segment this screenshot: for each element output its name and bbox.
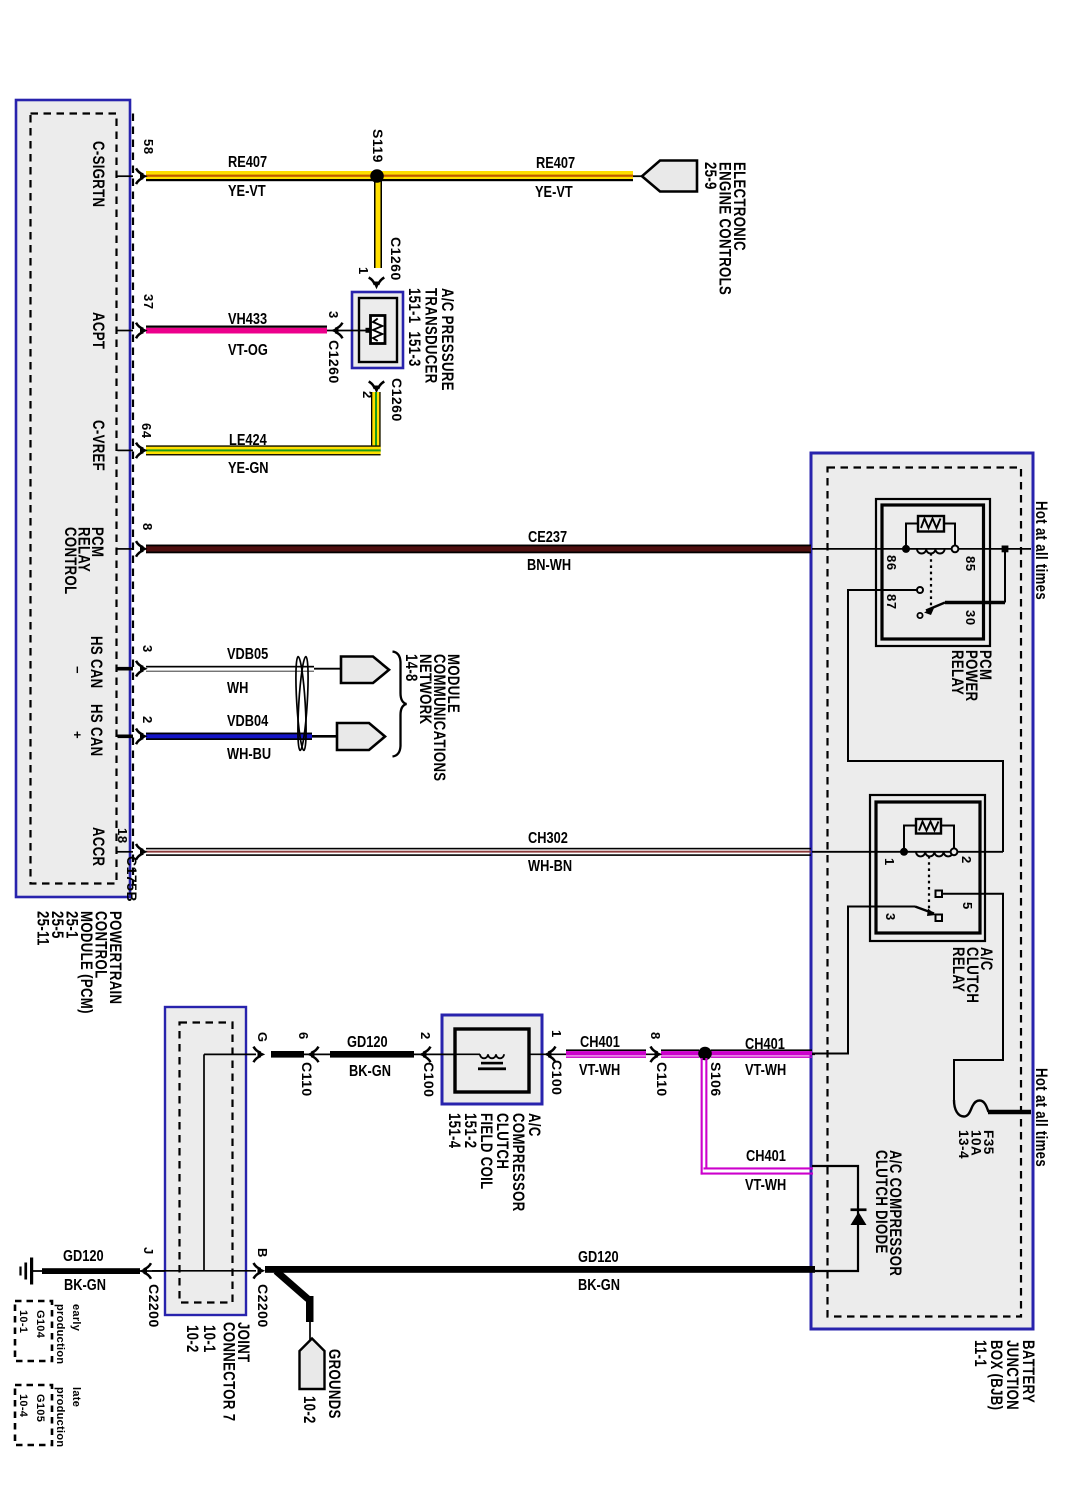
label: S106 bbox=[709, 1062, 723, 1097]
twisted pair loops bbox=[294, 656, 308, 750]
connector C110 pin 6 arrow bbox=[304, 1053, 334, 1055]
wire VDB05 WH (pin 3 HS CAN- to network) bbox=[146, 666, 341, 672]
PCM module box bbox=[16, 100, 130, 897]
off-page connector: module comms network (lower) bbox=[337, 723, 385, 750]
label: 86 bbox=[885, 555, 898, 571]
pin 64 stub bbox=[118, 449, 134, 451]
connector C110 pin 8 arrow bbox=[651, 1047, 663, 1063]
label: VT-OG bbox=[228, 343, 268, 359]
wire CH302 WH-BN (pin 18 to BJB) bbox=[146, 848, 811, 856]
label: RE407 bbox=[536, 156, 575, 172]
label: + bbox=[71, 731, 84, 739]
label: C1260 bbox=[327, 340, 341, 384]
label: 2 bbox=[361, 391, 374, 399]
wire from clutch relay 3 to CH401 bbox=[812, 907, 915, 1054]
PCM power relay coil bbox=[917, 549, 945, 554]
label: 30 bbox=[964, 610, 977, 626]
label: VT-WH bbox=[745, 1178, 786, 1194]
connector C1260 pin 1 arrow bbox=[369, 278, 385, 290]
off-page connector: electronic engine controls bbox=[642, 161, 697, 192]
A/C compressor clutch diode circuit bbox=[812, 1166, 858, 1271]
label: C1260 bbox=[390, 378, 404, 422]
wire GD120 BK-GN (ground to C2200-J) bbox=[42, 1268, 140, 1274]
A/C clutch relay box bbox=[870, 795, 985, 941]
wire GD120 BK-GN (C110-6 to C100-2) bbox=[330, 1051, 414, 1058]
label: CH401 bbox=[745, 1037, 785, 1053]
A/C pressure transducer box bbox=[352, 292, 403, 368]
PCM power relay switch bbox=[930, 553, 932, 608]
label: ACPT bbox=[91, 312, 106, 349]
label: GROUNDS bbox=[327, 1349, 342, 1419]
label: 3 bbox=[327, 311, 340, 319]
label: 5 bbox=[961, 902, 974, 910]
label: C1260 bbox=[389, 237, 403, 281]
label: 37 bbox=[142, 294, 155, 310]
joint connector 7 box bbox=[165, 1007, 246, 1315]
connector C100 pin 2 arrow bbox=[414, 1053, 455, 1055]
label: WH-BN bbox=[528, 859, 572, 875]
C1260 pin 3 lead into transducer bbox=[327, 330, 366, 332]
field coil winding bbox=[455, 1053, 546, 1055]
pin 18 stub / C175B bbox=[118, 851, 134, 853]
label: early production bbox=[52, 1304, 84, 1364]
label: 2 bbox=[141, 716, 154, 724]
label: 85 bbox=[964, 556, 977, 572]
label: VH433 bbox=[228, 312, 267, 328]
label: WH-BU bbox=[227, 747, 271, 763]
label: BK-GN bbox=[64, 1278, 106, 1294]
BJB inner dashed border bbox=[828, 468, 1022, 1317]
label: C100 bbox=[550, 1060, 564, 1095]
label: BK-GN bbox=[578, 1278, 620, 1294]
wire RE407 YE-VT (pin 58 to S119 to EEC) bbox=[146, 171, 643, 181]
label: C2200 bbox=[256, 1284, 270, 1328]
pin 37 stub bbox=[118, 330, 134, 332]
label: Hot at all times bbox=[1034, 1068, 1049, 1167]
wire GD120 BK-GN (G to C110-6) bbox=[271, 1051, 304, 1058]
label: VT-WH bbox=[745, 1063, 786, 1079]
label: 8 bbox=[649, 1032, 662, 1040]
joint connector internal bus bbox=[204, 1053, 256, 1055]
label: ACCR bbox=[91, 827, 106, 866]
joint connector pin B arrow bbox=[254, 1263, 266, 1279]
label: YE-GN bbox=[228, 461, 269, 477]
label: CH401 bbox=[580, 1035, 620, 1051]
transducer element symbol bbox=[366, 328, 371, 333]
label: 2 bbox=[419, 1032, 432, 1040]
wire CE237 BN-WH (pin 8 to BJB) bbox=[146, 545, 811, 554]
pin 8 stub bbox=[118, 548, 134, 550]
A/C clutch relay coil line bbox=[812, 851, 1003, 853]
label: J bbox=[142, 1247, 155, 1255]
label: CH401 bbox=[746, 1149, 786, 1165]
label: BN-WH bbox=[527, 558, 571, 574]
connector C100 pin 1 arrow bbox=[544, 1047, 556, 1063]
label: 58 bbox=[142, 139, 155, 155]
label: ELECTRONIC ENGINE CONTROLS 25-9 bbox=[703, 162, 747, 295]
label: 1 bbox=[883, 858, 896, 866]
label: 3 bbox=[884, 913, 897, 921]
wire from relay 87 to A/C clutch relay coil bbox=[848, 590, 1003, 852]
label: C-VREF bbox=[91, 420, 106, 471]
label: YE-VT bbox=[228, 184, 266, 200]
label: CE237 bbox=[528, 530, 567, 546]
splice S106 bbox=[698, 1047, 712, 1061]
connector C1260 pin 2 arrow bbox=[369, 382, 385, 394]
label: 87 bbox=[885, 594, 898, 610]
pin 2 stub (thick) bbox=[118, 734, 134, 738]
A/C compressor clutch field coil box bbox=[442, 1015, 542, 1104]
label: HS CAN bbox=[89, 636, 104, 689]
PCM power relay resistor bbox=[918, 516, 944, 532]
label: A/C CLUTCH RELAY bbox=[951, 947, 993, 1003]
battery junction box (BJB) bbox=[811, 453, 1033, 1329]
G104 legend dashed box bbox=[15, 1301, 52, 1361]
label: C110 bbox=[300, 1062, 314, 1097]
label: C100 bbox=[422, 1062, 436, 1097]
wire CH401 vertical and lower run from S106 to BJB diode bbox=[701, 1058, 813, 1175]
label: Hot at all times bbox=[1034, 501, 1049, 600]
off-page connector: grounds bbox=[300, 1339, 325, 1390]
PCM power relay coil feed line (hot at all times) bbox=[812, 548, 1031, 550]
label: GD120 bbox=[63, 1249, 104, 1265]
label: C-SIGRTN bbox=[91, 141, 106, 207]
wire RE407 vertical from S119 to C1260 pin 1 bbox=[374, 179, 382, 268]
G105 legend dashed box bbox=[15, 1385, 52, 1445]
ground G104/G105 symbol bbox=[33, 1270, 42, 1272]
wire LE424 YE-GN (pin 64 to C1260 pin 2) bbox=[146, 392, 381, 455]
label: B bbox=[256, 1248, 269, 1258]
wire GD120 BK-GN (B to BJB diode) bbox=[265, 1266, 815, 1273]
fuse F35 bbox=[954, 1100, 989, 1117]
label: 18 bbox=[116, 828, 129, 844]
label: WH bbox=[227, 681, 248, 697]
label: VDB04 bbox=[227, 714, 268, 730]
label: GD120 bbox=[578, 1250, 619, 1266]
label: C2200 bbox=[147, 1284, 161, 1328]
A/C clutch relay resistor bbox=[916, 819, 941, 834]
wire CH401 VT-WH (C100-1 to S106 to BJB) bbox=[546, 1053, 815, 1055]
label: POWERTRAIN CONTROL MODULE (PCM) 25-1 25- bbox=[35, 911, 122, 1014]
label: C175B bbox=[125, 856, 139, 902]
wire VDB04 WH-BU (pin 2 HS CAN+ to network) bbox=[146, 733, 337, 740]
splice S119 bbox=[370, 169, 384, 183]
PCM inner dashed border bbox=[31, 114, 117, 884]
PCM power relay box bbox=[876, 499, 990, 646]
label: 1 bbox=[357, 267, 370, 275]
pin 58 stub bbox=[118, 175, 134, 177]
label: GD120 bbox=[347, 1035, 388, 1051]
label: minus bbox=[71, 666, 84, 674]
label: YE-VT bbox=[535, 185, 573, 201]
label: 1 bbox=[550, 1030, 563, 1038]
label: CH302 bbox=[528, 831, 568, 847]
label: 2 bbox=[960, 856, 973, 864]
joint connector inner dashed border bbox=[180, 1023, 233, 1303]
label: 3 bbox=[141, 645, 154, 653]
label: 10-2 bbox=[302, 1396, 317, 1424]
joint connector pin G arrow bbox=[254, 1047, 266, 1063]
label: 64 bbox=[140, 423, 153, 439]
label: G105 10-4 bbox=[14, 1394, 48, 1422]
label: RE407 bbox=[228, 155, 267, 171]
label: PCM RELAY CONTROL bbox=[63, 527, 104, 595]
label: 10-1 10-2 bbox=[183, 1325, 217, 1353]
label: BK-GN bbox=[349, 1064, 391, 1080]
brace bbox=[393, 652, 407, 757]
A/C clutch relay coil bbox=[916, 852, 953, 857]
label: S119 bbox=[371, 129, 385, 163]
PCM C175B connector dashed line bbox=[132, 114, 134, 885]
pin 3 stub (thick) bbox=[118, 667, 134, 671]
label: C110 bbox=[655, 1062, 669, 1097]
label: BATTERY JUNCTION BOX (BJB) 11-1 bbox=[972, 1340, 1036, 1410]
label: A/C COMPRESSOR CLUTCH FIELD COIL 151-2 1 bbox=[446, 1113, 542, 1212]
label: F35 10A 13-4 bbox=[957, 1130, 995, 1159]
label: VDB05 bbox=[227, 647, 268, 663]
grounds branch bbox=[276, 1271, 308, 1299]
A/C clutch relay switch bbox=[928, 856, 930, 910]
junction to pin 30 bbox=[1002, 546, 1009, 553]
label: A/C PRESSURE TRANSDUCER 151-1 151-3 bbox=[406, 288, 456, 391]
wire VH433 VT-OG (pin 37 to C1260 pin 3) bbox=[146, 326, 327, 334]
label: A/C COMPRESSOR CLUTCH DIODE bbox=[874, 1150, 902, 1276]
off-page connector: module comms network (upper) bbox=[341, 657, 389, 684]
label: VT-WH bbox=[579, 1063, 620, 1079]
label: PCM POWER RELAY bbox=[950, 650, 992, 701]
label: G bbox=[256, 1032, 269, 1043]
connector C2200 pin J arrow bbox=[139, 1263, 151, 1279]
label: HS CAN bbox=[89, 704, 104, 757]
label: 6 bbox=[297, 1032, 310, 1040]
label: G104 10-1 bbox=[14, 1310, 48, 1338]
label: JOINT CONNECTOR 7 bbox=[221, 1322, 250, 1421]
label: late production bbox=[52, 1387, 84, 1447]
label: 8 bbox=[141, 523, 154, 531]
label: LE424 bbox=[229, 433, 267, 449]
label: MODULE COMMUNICATIONS NETWORK 14-8 bbox=[404, 654, 460, 781]
